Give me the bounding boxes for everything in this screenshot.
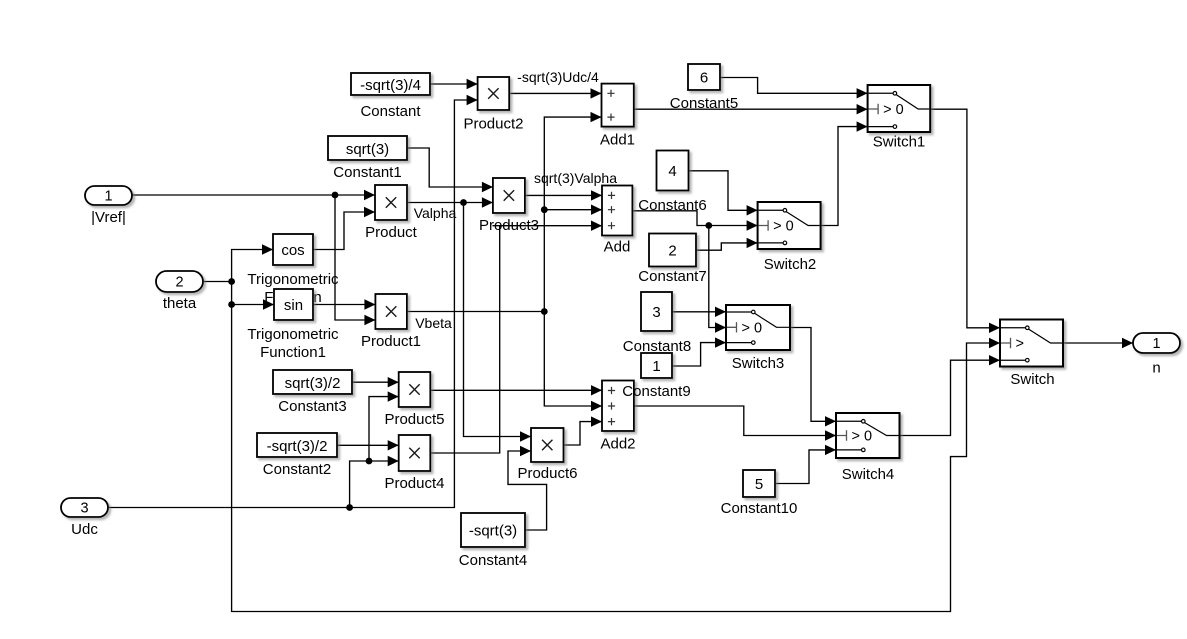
label Trigonometric Function (cos) [247,271,339,306]
wire Add to Switch2 in2 [632,211,757,231]
svg-text:sqrt(3): sqrt(3) [346,141,389,158]
svg-text:Product6: Product6 [517,465,577,482]
junction theta node B [228,301,235,308]
wire Constant7 to Switch2 in3 [696,238,757,251]
constant Constant6 value 4 [657,151,689,191]
svg-text:Function1: Function1 [260,344,326,361]
svg-text:-sqrt(3)/4: -sqrt(3)/4 [360,77,421,94]
wire Product2 to Add1 in1 [509,88,601,98]
wire theta port2 to junction [203,281,232,283]
svg-text:-sqrt(3)/2: -sqrt(3)/2 [267,438,328,455]
wire Constant4 to Product6 in2 [508,446,547,530]
product Product4 [399,435,431,471]
wire Constant2 to Product4 in1 [337,440,399,450]
wire Product4 to Add in3 riser [430,226,499,453]
junction Valpha node [460,199,467,206]
constant Constant10 value 5 [743,470,775,497]
svg-text:Switch4: Switch4 [842,466,895,483]
junction Udc node [346,504,353,511]
svg-text:3: 3 [652,304,660,321]
svg-text:3: 3 [80,501,88,517]
svg-text:Udc: Udc [71,521,98,538]
svg-text:Constant: Constant [360,103,421,120]
wire Valpha Product to Product3 in2 [407,197,493,207]
svg-text:Valpha: Valpha [414,205,457,221]
svg-text:Vbeta: Vbeta [415,315,452,331]
svg-text:theta: theta [163,295,197,312]
svg-text:Constant7: Constant7 [638,268,706,285]
wire Product6 to Add2 in3 [564,416,603,445]
svg-text:1: 1 [652,358,660,375]
svg-text:cos: cos [281,242,304,259]
wire Vbeta tap to Add in2 [544,205,602,215]
svg-text:> 0: > 0 [852,429,873,445]
product Product5 [399,372,431,407]
wire Vbeta Product1 to junction [407,311,545,313]
wire Product3 to Add in1 [525,190,602,200]
wire |Vref| branch to Product1 in2 [335,195,375,325]
wire Add2 to Switch4 in2 [634,406,836,441]
svg-text:Product1: Product1 [361,333,421,350]
wire theta to sin [232,282,274,310]
wire Valpha branch to Product6 in1 [464,203,532,442]
svg-text:Constant3: Constant3 [278,398,346,415]
svg-text:Trigonometric: Trigonometric [247,271,339,288]
svg-text:Constant4: Constant4 [459,552,527,569]
wire theta to cos [232,244,273,281]
wire Add in3 horizontal [493,221,603,231]
constant Constant5 value 6 [688,64,720,90]
trig block cos Trigonometric Function [273,234,313,265]
svg-text:n: n [1152,360,1160,377]
constant Constant8 value 3 [641,292,672,331]
junction Udc node B [366,458,373,465]
svg-text:> 0: > 0 [883,102,904,118]
svg-text:2: 2 [175,275,183,291]
svg-text:>: > [1016,336,1024,352]
svg-text:2: 2 [668,243,676,260]
wire |Vref| port1 to Product in1 [132,190,375,200]
svg-text:> 0: > 0 [742,320,763,336]
junction |Vref| node [332,192,339,199]
svg-text:5: 5 [755,476,763,493]
constant Constant3 sqrt(3)/2 [273,370,352,394]
wire Constant1 to Product3 in1 [407,148,493,192]
input port 2 theta [156,271,203,292]
switch Switch1 [868,85,931,132]
input port 1 |Vref| [85,186,132,205]
svg-text:-sqrt(3): -sqrt(3) [469,523,517,540]
svg-text:> 0: > 0 [773,219,794,235]
wire Switch3 to Switch4 in1 [790,328,836,427]
svg-text:Constant1: Constant1 [333,164,401,181]
constant Constant2 -sqrt(3)/2 [257,433,337,457]
output port 1 n [1133,333,1180,353]
svg-text:sin: sin [284,297,303,314]
wire Switch4 to Switch in3 [900,355,1001,436]
svg-text:Add1: Add1 [600,132,635,149]
wire Vbeta to Add2 in2 [544,312,602,412]
svg-text:1: 1 [104,189,112,205]
product Product [375,185,407,220]
svg-text:Product: Product [365,224,418,241]
svg-text:Product5: Product5 [384,411,444,428]
junction Vbeta tap node [541,206,548,213]
switch Switch4 [836,413,900,458]
junction control node [705,222,712,229]
svg-text:1: 1 [1152,336,1160,352]
label Trigonometric Function1 (sin) [247,326,339,361]
svg-text:Constant9: Constant9 [622,383,690,400]
svg-text:Constant10: Constant10 [721,500,798,517]
svg-text:Trigonometric: Trigonometric [247,326,339,343]
wire Switch to out port n [1063,338,1133,348]
wire Vbeta to Add1 in2 [544,112,601,312]
product Product1 [375,294,407,329]
wire Constant5 to Switch1 in1 [720,78,868,99]
constant Constant4 -sqrt(3) [461,513,525,547]
wire Constant6 to Switch2 in1 [689,171,758,216]
wire theta feedback to Switch in2 [232,305,1000,612]
svg-text:sqrt(3)/2: sqrt(3)/2 [285,375,341,392]
constant Constant7 value 2 [649,234,696,267]
wire Constant to Product2 in1 [430,79,478,89]
wire Constant3 to Product5 in1 [352,377,399,387]
wire cos to Product in2 [313,207,375,250]
junction theta node A [228,278,235,285]
wire Constant10 to Switch4 in3 [775,445,836,484]
svg-text:4: 4 [668,163,676,180]
product Product3 [493,178,525,213]
constant Constant9 value 1 [641,353,672,378]
constant Constant -sqrt(3)/4 [351,73,430,95]
input port 3 Udc [61,498,108,517]
switch Switch [1000,320,1063,367]
svg-text:Switch: Switch [1010,371,1054,388]
wire Udc branch to Product5 in2 [369,391,399,461]
adder Add1 [602,84,634,127]
constant Constant1 sqrt(3) [328,136,407,160]
wire Udc branch to Product4 in2 [350,456,399,508]
svg-text:sqrt(3)Valpha: sqrt(3)Valpha [534,170,617,186]
svg-text:Switch3: Switch3 [732,355,785,372]
wire Constant9 to Switch3 in3 [672,337,726,366]
wire Udc port3 to Product2 in2 [108,95,478,508]
wire sin to Product1 in1 [313,299,375,309]
svg-text:Product2: Product2 [463,116,523,133]
wire Product5 to Add2 in1 [430,385,602,395]
junction Vbeta node [541,308,548,315]
wire Switch1 to Switch in1 [930,109,1000,333]
wire Switch2 to Switch1 in3 [821,121,868,225]
svg-text:-sqrt(3)Udc/4: -sqrt(3)Udc/4 [517,69,599,85]
product Product6 [531,428,564,462]
svg-text:Switch1: Switch1 [873,134,926,151]
adder Add [602,186,632,236]
trig block sin Trigonometric Function1 [274,289,313,320]
adder Add2 [602,381,634,432]
svg-text:Switch2: Switch2 [764,256,817,273]
svg-text:6: 6 [700,70,708,87]
svg-text:|Vref|: |Vref| [91,209,126,226]
wire Constant8 to Switch3 in1 [673,307,726,317]
switch Switch2 [758,202,821,249]
svg-text:Add: Add [604,239,631,256]
svg-text:Constant2: Constant2 [263,461,331,478]
product Product2 [478,77,510,110]
svg-text:Product4: Product4 [384,475,444,492]
wire control branch to Switch3 in2 [709,226,726,333]
switch Switch3 [726,305,790,350]
wire Add1 to Switch1 in2 [634,104,868,114]
svg-text:Add2: Add2 [600,436,635,453]
